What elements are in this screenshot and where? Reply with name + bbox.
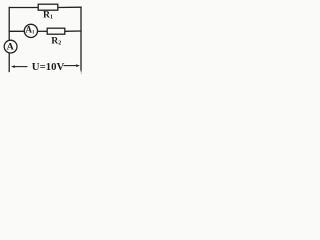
wire right terminal fading tail bbox=[81, 71, 82, 74]
wire middle branch right bbox=[65, 30, 81, 32]
ammeter A bbox=[4, 40, 17, 53]
wire left vertical upper bbox=[8, 8, 10, 41]
arrow left (to left terminal) bbox=[11, 65, 28, 68]
resistor R2 bbox=[47, 28, 65, 34]
wire top right segment bbox=[58, 6, 82, 8]
arrow right (to right terminal) bbox=[64, 64, 81, 67]
wire middle branch left bbox=[9, 30, 24, 32]
svg-text:U=10V: U=10V bbox=[32, 61, 65, 73]
wire middle branch center bbox=[38, 30, 47, 32]
wire right vertical bbox=[80, 7, 82, 70]
resistor R1 bbox=[38, 4, 58, 10]
ammeter A1 bbox=[24, 24, 37, 37]
svg-text:A: A bbox=[7, 41, 15, 52]
wire top left segment bbox=[9, 7, 38, 9]
wire left vertical lower bbox=[8, 53, 10, 72]
